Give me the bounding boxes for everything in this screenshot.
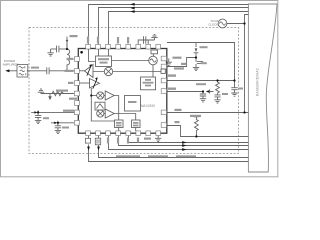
svg-text:CLOCK: CLOCK [208,23,218,27]
svg-text:BASEBAND/MAC: BASEBAND/MAC [255,67,259,96]
svg-text:AMPLIFIER: AMPLIFIER [3,62,20,66]
svg-text:MAX2830: MAX2830 [141,104,156,108]
